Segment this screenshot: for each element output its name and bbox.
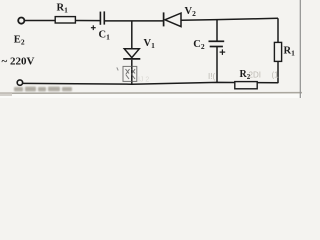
watermark: boxed character under V1 xyxy=(123,66,137,81)
bottom rail wire: terminal to R2 xyxy=(23,82,235,84)
wire: top terminal to R1 xyxy=(25,20,55,22)
wire: C2 to bottom rail xyxy=(216,47,218,83)
capacitor C1 xyxy=(99,12,101,25)
diode V1 (pointing down) xyxy=(124,49,139,58)
wire: load resistor to bottom rail xyxy=(277,61,279,83)
wire: branch from node B down to C2 xyxy=(216,20,218,42)
wire: C1 to V2, junction at node A (x=132) xyxy=(105,20,164,22)
right scan border xyxy=(299,0,301,98)
resistor R1 (top) xyxy=(55,17,75,23)
paper background xyxy=(0,0,302,98)
wire: V1 to bottom rail xyxy=(131,60,133,84)
plus sign of C2 xyxy=(220,51,226,53)
resistor R1 (load, right) xyxy=(274,42,281,61)
watermark: tick left of box xyxy=(117,67,118,70)
wire: branch from node A down to V1 xyxy=(131,21,133,49)
svg-text:(1: (1 xyxy=(272,71,280,80)
diode V2 (cathode bar left, triangle pointing left) xyxy=(163,12,165,26)
wire: right vertical drop to load resistor xyxy=(277,18,279,42)
plus sign of C1 xyxy=(91,27,96,29)
svg-text:2DI: 2DI xyxy=(249,71,261,80)
resistor R2 (bottom) xyxy=(235,82,257,89)
watermark: blurred text bottom-left xyxy=(14,87,72,92)
svg-text:IJ 2: IJ 2 xyxy=(138,77,149,84)
wire: R1 to C1 xyxy=(75,20,100,22)
terminal E2 top xyxy=(18,18,24,24)
svg-text:I!(: I!( xyxy=(208,72,215,81)
terminal E2 bottom xyxy=(17,80,22,85)
wire: R2 to right branch xyxy=(257,82,278,84)
bottom-left scan smudge xyxy=(0,92,12,96)
bottom scan shadow line xyxy=(0,92,302,95)
capacitor C2 xyxy=(209,40,225,42)
svg-text:~ 220V: ~ 220V xyxy=(2,56,35,68)
wire: V2 to top-right corner, junction at node B (x=216.5) xyxy=(181,18,278,20)
